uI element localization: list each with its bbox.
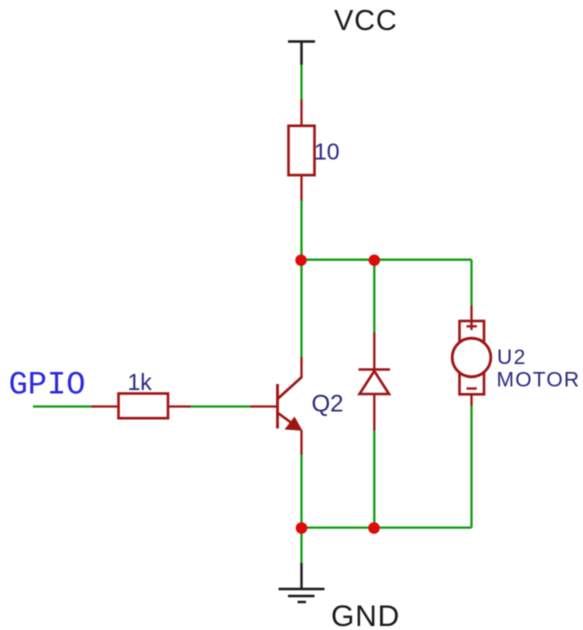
svg-text:Q2: Q2 [312, 391, 344, 418]
svg-text:1k: 1k [128, 369, 153, 395]
svg-text:GND: GND [331, 600, 400, 630]
svg-text:10: 10 [314, 139, 340, 165]
svg-text:VCC: VCC [334, 5, 398, 37]
svg-text:GPIO: GPIO [9, 367, 86, 404]
svg-text:MOTOR: MOTOR [497, 369, 581, 392]
svg-text:U2: U2 [497, 346, 527, 369]
